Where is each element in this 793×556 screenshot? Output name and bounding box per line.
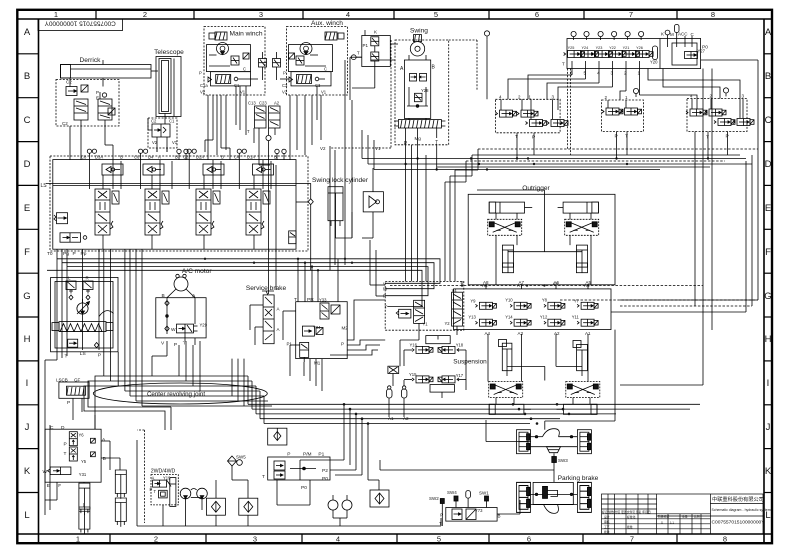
svg-text:4: 4 [346, 10, 350, 19]
accumulator cylinder 2 [79, 507, 90, 534]
svg-text:T: T [64, 451, 67, 457]
svg-text:I: I [767, 378, 770, 389]
svg-text:V1: V1 [172, 140, 178, 145]
manifold valves Y25 Y24 Y23 Y22 Y21 Y26 [564, 46, 654, 58]
svg-text:Y6: Y6 [79, 433, 85, 438]
svg-text:1: 1 [54, 10, 58, 19]
svg-text:T: T [183, 341, 186, 347]
svg-text:P: P [150, 487, 153, 492]
svg-text:V: V [161, 341, 165, 347]
SW3 switch [552, 453, 568, 463]
svg-text:P: P [64, 442, 67, 448]
travel pump circles [180, 488, 207, 499]
zone ticks bottom [110, 534, 677, 543]
svg-text:E: E [24, 203, 30, 214]
svg-text:Y9: Y9 [470, 298, 476, 303]
derrick valve group [56, 80, 119, 127]
svg-text:4: 4 [499, 94, 502, 99]
svg-text:P0: P0 [702, 45, 708, 51]
pilot valve group III (ports 4 2 3) [686, 88, 754, 148]
svg-text:T: T [625, 134, 628, 140]
valve Y6 [69, 432, 77, 446]
svg-text:Y28: Y28 [421, 88, 429, 93]
pilot block to winches wires [350, 30, 398, 100]
svg-text:SW4: SW4 [447, 490, 457, 495]
A/C motor circle [174, 274, 188, 291]
svg-text:Y31: Y31 [79, 472, 87, 477]
main control valve outer dashed box [50, 156, 308, 251]
svg-text:Y22: Y22 [609, 46, 616, 50]
svg-text:B: B [221, 155, 224, 160]
outrigger bus drop [390, 286, 703, 307]
pump group outer box [51, 278, 118, 352]
svg-text:Y8: Y8 [542, 297, 548, 302]
svg-text:L: L [24, 510, 29, 521]
svg-text:S: S [661, 521, 663, 525]
svg-text:B: B [162, 293, 165, 299]
svg-text:8: 8 [711, 10, 715, 19]
svg-text:K: K [661, 31, 664, 36]
svg-text:C3: C3 [282, 83, 288, 88]
svg-text:R: R [86, 276, 90, 281]
svg-text:Y13: Y13 [468, 315, 476, 320]
svg-text:C1: C1 [234, 83, 240, 88]
svg-text:Y26: Y26 [636, 46, 643, 50]
pump swash arrow [99, 311, 114, 317]
svg-text:Derrick: Derrick [80, 57, 102, 64]
svg-text:P: P [174, 342, 177, 348]
svg-text:A: A [158, 155, 161, 160]
svg-text:C: C [324, 67, 327, 72]
svg-text:5: 5 [437, 535, 441, 544]
svg-text:中联重科股份有限公司: 中联重科股份有限公司 [712, 495, 764, 503]
outrigger outer box [468, 194, 615, 284]
parking valve solenoid pins [429, 490, 489, 508]
svg-text:1: 1 [638, 70, 641, 76]
pump regulator [68, 339, 99, 348]
svg-text:Pg: Pg [63, 251, 69, 257]
svg-text:B: B [274, 155, 277, 160]
svg-text:Main winch: Main winch [230, 31, 263, 38]
svg-text:5: 5 [584, 70, 587, 76]
svg-text:D: D [24, 159, 31, 170]
accumulator cylinder 1 [79, 483, 90, 515]
svg-text:比例: 比例 [694, 515, 700, 519]
main block to pump wires [45, 249, 99, 470]
LSCB GF labels [56, 377, 81, 382]
svg-text:P1: P1 [287, 342, 293, 347]
derrick wires [70, 60, 103, 99]
svg-text:V2: V2 [282, 90, 288, 95]
svg-text:M: M [670, 32, 674, 37]
Y20 capsule [650, 46, 658, 65]
right descent wires from manifold [620, 60, 758, 385]
svg-text:V1: V1 [240, 90, 246, 95]
zone ticks left [17, 54, 38, 493]
pump pilot valves L R [66, 276, 93, 300]
svg-text:设计: 设计 [604, 515, 610, 519]
center vertical pilot bundle [330, 60, 352, 270]
svg-text:A: A [102, 437, 106, 443]
center revolving joint ellipse [93, 383, 267, 404]
svg-text:E: E [96, 96, 99, 101]
outrigger horizontal cylinder right [558, 202, 599, 213]
accumulator cylinder 4 [115, 498, 126, 527]
svg-text:C007557015 10000000Y: C007557015 10000000Y [44, 19, 116, 26]
svg-text:J: J [766, 422, 771, 433]
section port labels [81, 155, 277, 160]
svg-text:C00755701510000000Y: C00755701510000000Y [712, 520, 766, 526]
svg-text:C2: C2 [151, 119, 157, 124]
svg-text:审核: 审核 [604, 520, 610, 524]
swing lock cylinder body [328, 187, 343, 228]
svg-text:6: 6 [527, 535, 531, 544]
svg-text:B: B [432, 65, 436, 71]
svg-text:3: 3 [552, 94, 555, 99]
svg-text:F: F [24, 247, 30, 258]
swing wires [409, 55, 426, 120]
zone numbers top [54, 10, 715, 19]
bottom distribution wires [137, 440, 554, 526]
svg-text:P0: P0 [301, 485, 307, 491]
swing lock pilot valve [363, 192, 383, 212]
svg-text:A: A [277, 327, 280, 332]
suspension cylinder left [499, 340, 512, 377]
winch pilot valves C13 C23 [247, 101, 280, 141]
svg-text:Y5: Y5 [81, 459, 87, 464]
suspension pilot wires [404, 336, 466, 398]
svg-text:P: P [96, 90, 99, 95]
service brake feed wires [298, 259, 338, 302]
swing lock cylinder wires [336, 168, 374, 238]
svg-text:2: 2 [143, 10, 147, 19]
suspension valves row1 [475, 302, 598, 309]
svg-text:A2: A2 [274, 101, 280, 106]
svg-text:H: H [24, 334, 31, 345]
svg-text:M: M [383, 287, 387, 292]
svg-text:T: T [706, 134, 709, 140]
suspension horizontal cylinder right [557, 404, 598, 414]
right mid horizontal bus [560, 155, 758, 312]
svg-text:Aux. winch: Aux. winch [311, 20, 343, 27]
svg-text:E: E [765, 203, 771, 214]
svg-text:Telescope: Telescope [154, 49, 184, 56]
svg-text:1: 1 [625, 95, 628, 100]
svg-text:T: T [562, 61, 565, 66]
svg-text:F: F [58, 483, 61, 489]
suspension horizontal cylinder left [489, 404, 531, 414]
svg-text:4: 4 [690, 93, 693, 98]
bottom filter box right [370, 490, 389, 507]
svg-text:2WD/4WD: 2WD/4WD [151, 469, 176, 475]
svg-text:T: T [515, 134, 518, 140]
svg-text:标记 处数 分区 更改文件号 签名 年月日: 标记 处数 分区 更改文件号 签名 年月日 [602, 510, 651, 514]
svg-text:Center revolving joint: Center revolving joint [147, 391, 205, 398]
svg-text:4: 4 [597, 70, 600, 76]
svg-text:T: T [262, 474, 265, 480]
svg-text:T: T [247, 129, 250, 134]
svg-text:T: T [294, 297, 297, 303]
suspension valve labels row2 [468, 315, 579, 320]
steering block check squares [91, 438, 96, 456]
valve section 4 spool [246, 189, 270, 235]
svg-text:C: C [765, 115, 772, 126]
bottom vertical bundle [344, 404, 368, 480]
svg-text:1: 1 [76, 535, 80, 544]
outrigger lock valve right [565, 219, 599, 235]
inlet relief valve [54, 213, 68, 224]
service brake riser bundle [179, 146, 322, 406]
winch brake pilot block K [351, 30, 390, 67]
A/C motor wires [167, 289, 195, 341]
svg-text:Schematic diagram - hydraulic: Schematic diagram - hydraulic system [712, 508, 771, 512]
svg-text:P1: P1 [363, 43, 369, 48]
svg-text:标准化: 标准化 [627, 515, 636, 519]
svg-text:C: C [24, 115, 31, 126]
zone letters left [23, 27, 31, 521]
svg-text:3: 3 [253, 535, 257, 544]
svg-text:P: P [73, 251, 76, 257]
svg-text:P0: P0 [322, 476, 328, 482]
svg-text:批准: 批准 [627, 525, 633, 529]
mid bus junction dots [204, 258, 353, 272]
winch to valve bus wires [205, 52, 317, 165]
svg-text:C: C [243, 67, 246, 72]
svg-text:SW5: SW5 [236, 454, 246, 459]
check box mid [268, 428, 287, 445]
zone ticks right [764, 54, 772, 493]
svg-text:J: J [25, 422, 30, 433]
svg-text:C23: C23 [259, 101, 267, 106]
svg-text:Y1: Y1 [423, 322, 429, 327]
svg-text:L: L [68, 276, 71, 281]
outrigger lock valve left [488, 219, 522, 235]
svg-text:P: P [199, 71, 202, 76]
pilot valve group I (ports 4 2 1 3) [495, 94, 568, 148]
solenoid manifold top right box [562, 39, 701, 69]
winch riser wires extra [208, 86, 321, 160]
svg-text:T: T [385, 305, 388, 310]
bottom accumulators pair [328, 495, 352, 510]
main pump circle [77, 299, 90, 314]
svg-text:ACC: ACC [678, 31, 688, 36]
rear axle assembly [517, 482, 592, 513]
svg-text:SW3: SW3 [558, 458, 568, 463]
svg-text:批准: 批准 [604, 530, 610, 534]
filter box 1 [206, 498, 225, 515]
svg-text:C: C [691, 32, 695, 37]
svg-text:A4: A4 [485, 331, 491, 336]
Aux winch group [282, 20, 348, 95]
svg-text:V2: V2 [320, 146, 326, 151]
outrigger port labels [461, 280, 592, 285]
left bus bundle verticals [104, 249, 142, 406]
service brake to pilot block staircase [330, 300, 385, 355]
svg-text:Y20: Y20 [650, 60, 658, 65]
pilot supply block wires [370, 240, 457, 417]
svg-text:K: K [765, 466, 772, 477]
svg-text:Y25: Y25 [568, 46, 575, 50]
svg-text:F: F [765, 247, 771, 258]
outrigger vertical cylinder right [576, 245, 587, 273]
svg-text:G: G [23, 291, 30, 302]
svg-text:C8: C8 [81, 155, 87, 160]
svg-text:Y18: Y18 [456, 342, 464, 347]
pilot group riser wires [517, 139, 728, 155]
suspension port labels bottom [485, 331, 592, 336]
svg-text:G: G [764, 291, 771, 302]
manifold drop wires [508, 61, 740, 118]
svg-text:Y29: Y29 [200, 323, 208, 328]
svg-text:Outrigger: Outrigger [522, 185, 550, 192]
svg-text:3: 3 [259, 10, 263, 19]
derrick cylinder [61, 65, 159, 79]
2WD valve group [150, 475, 179, 507]
LS long wire to swing [296, 183, 311, 270]
suspension valve Y15 Y17 [409, 372, 464, 392]
svg-text:P: P [341, 342, 344, 347]
svg-text:P1: P1 [318, 452, 324, 458]
svg-text:C3: C3 [315, 83, 321, 88]
svg-text:M2: M2 [342, 325, 349, 330]
svg-text:C2: C2 [62, 121, 68, 126]
tandem pump row [52, 322, 113, 332]
svg-text:B: B [765, 71, 771, 82]
svg-text:7: 7 [629, 10, 633, 19]
svg-text:Pp: Pp [81, 251, 87, 257]
svg-text:7: 7 [630, 535, 634, 544]
svg-text:重量: 重量 [682, 515, 688, 519]
valve Y31 [43, 467, 71, 475]
svg-text:6: 6 [535, 10, 539, 19]
outrigger feed vertical [477, 190, 588, 289]
pilot supply block Y1 Y2 Y4 [383, 281, 464, 330]
bus junction dots [343, 403, 571, 425]
valve Y5 [69, 447, 77, 461]
cross bus under pilot groups [437, 149, 758, 281]
lock line diamond [308, 199, 313, 205]
svg-text:PR: PR [307, 297, 314, 303]
svg-text:D1A: D1A [247, 155, 255, 160]
svg-text:LS: LS [80, 351, 86, 357]
svg-text:H: H [765, 334, 772, 345]
svg-text:E: E [47, 483, 50, 489]
svg-text:Y21: Y21 [623, 46, 630, 50]
pilot accumulator circles top [484, 31, 576, 100]
suspension lock valve left [489, 382, 523, 398]
svg-text:Y10: Y10 [505, 297, 513, 302]
valve section 1 spool [95, 189, 119, 235]
axle link wires [486, 420, 554, 482]
manifold pilot heads [584, 31, 644, 40]
svg-text:D: D [765, 159, 772, 170]
svg-text:2: 2 [605, 95, 608, 100]
svg-text:M1: M1 [314, 361, 321, 366]
K M ACC C labels and small symbols [661, 25, 695, 48]
svg-text:Y12: Y12 [540, 315, 548, 320]
swing valve block [400, 60, 436, 118]
svg-text:P/M: P/M [303, 452, 312, 458]
svg-text:Swing lock cylinder: Swing lock cylinder [312, 177, 369, 184]
title block tiny row texts [602, 510, 700, 534]
Y27 valve [685, 49, 706, 59]
svg-text:P: P [440, 513, 443, 518]
svg-text:A: A [24, 27, 31, 38]
svg-text:A3: A3 [518, 331, 524, 336]
svg-text:A2: A2 [554, 331, 560, 336]
suspension accumulators [387, 386, 410, 421]
svg-text:K: K [374, 30, 377, 35]
service brake pedal valve [262, 291, 280, 344]
svg-text:T: T [357, 50, 360, 55]
end cover component [289, 231, 296, 244]
suspension hardware wires [488, 330, 615, 430]
suspension cylinder right [573, 341, 587, 377]
orifice box [388, 366, 399, 373]
svg-text:D2A: D2A [196, 155, 204, 160]
svg-text:P: P [67, 400, 70, 406]
svg-text:V1: V1 [321, 90, 327, 95]
svg-text:3: 3 [611, 70, 614, 76]
svg-text:Swing: Swing [410, 28, 428, 35]
main control valve body [53, 160, 296, 250]
svg-text:V2: V2 [200, 90, 206, 95]
svg-text:Y73: Y73 [475, 508, 483, 513]
bus wires under pilot valve groups [362, 130, 752, 171]
svg-text:T0: T0 [47, 251, 53, 257]
svg-text:A/C motor: A/C motor [182, 268, 212, 275]
svg-text:P: P [98, 352, 101, 358]
suspension valve labels row1 [470, 297, 579, 303]
outrigger horizontal cylinder left [489, 202, 532, 213]
svg-text:1:1: 1:1 [670, 521, 674, 525]
svg-text:W: W [171, 327, 176, 333]
zone numbers bottom [76, 535, 727, 544]
svg-text:B: B [120, 155, 123, 160]
svg-text:T: T [154, 489, 157, 494]
valve section 3 spool [196, 189, 220, 235]
part number box top-left (mirrored) [38, 19, 123, 31]
suspension valve Y16 Y18 [410, 336, 464, 354]
svg-text:Y11: Y11 [572, 315, 580, 320]
suspension lock valve right [566, 382, 600, 398]
zone letters right [764, 27, 772, 521]
svg-text:工艺: 工艺 [604, 525, 610, 529]
svg-text:V1: V1 [375, 146, 381, 151]
dashed pilot drop left of 2WD [137, 430, 144, 523]
svg-text:P: P [287, 452, 290, 458]
telescope pilot circles [177, 146, 381, 154]
valve section 2 spool [145, 189, 169, 235]
revolving joint bus staircase right [248, 376, 700, 424]
svg-text:V: V [383, 281, 386, 286]
suspension port labels top [482, 281, 590, 288]
revolving joint bus horizontals left [104, 376, 272, 406]
svg-text:C6: C6 [134, 155, 140, 160]
svg-text:C1: C1 [169, 119, 175, 124]
zone ticks top [96, 10, 677, 19]
LSCB valve box [59, 382, 89, 406]
front axle assembly [517, 429, 592, 454]
brake charge valve block [262, 452, 330, 482]
swing dashed pilot frame [330, 40, 477, 148]
svg-text:B: B [103, 456, 106, 462]
svg-text:Y14: Y14 [505, 315, 513, 320]
parking brake valve block [439, 508, 501, 527]
swing group box [395, 40, 449, 145]
svg-text:2: 2 [518, 94, 521, 99]
svg-text:Suspension: Suspension [453, 358, 487, 365]
